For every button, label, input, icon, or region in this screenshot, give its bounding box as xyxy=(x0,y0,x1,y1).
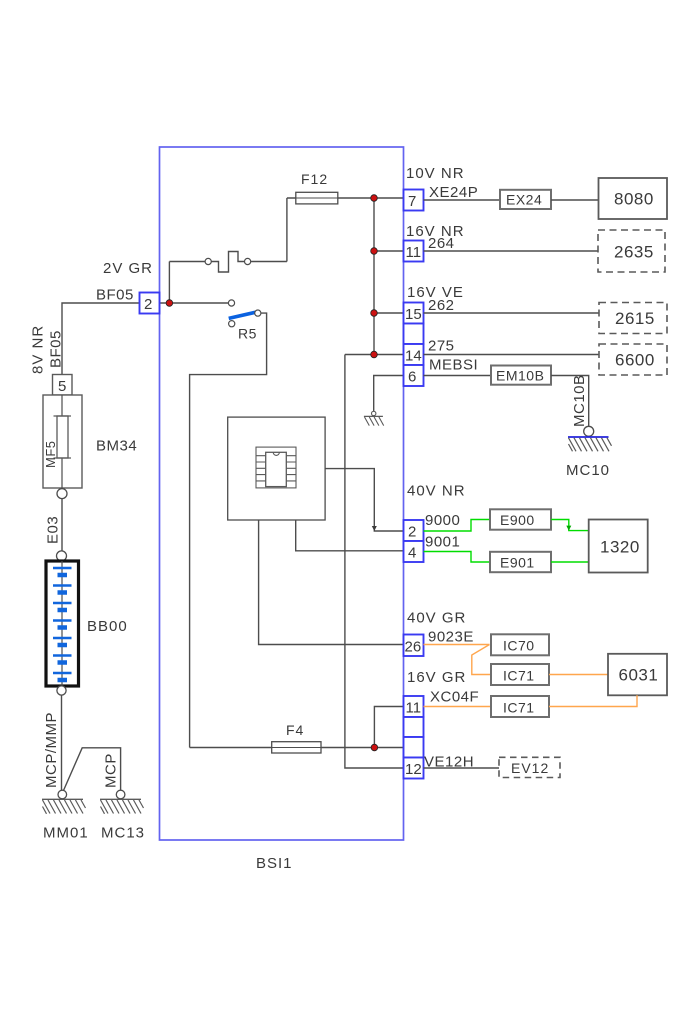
wire IC71b to 6031 orange xyxy=(549,695,637,706)
ground MM01 xyxy=(42,790,89,841)
svg-text:IC71: IC71 xyxy=(503,700,535,716)
splice EX24 xyxy=(500,190,551,209)
splice E901 xyxy=(490,552,551,572)
wire chip to pin 26 xyxy=(259,520,404,645)
arrow tick pin2 wire xyxy=(372,526,377,531)
wire pin 14 to 6600 xyxy=(424,354,600,356)
svg-text:8V NR: 8V NR xyxy=(30,325,47,374)
connector pin 14 xyxy=(404,344,424,365)
wire vertical from contact to F12 xyxy=(286,198,288,262)
fuse F12 xyxy=(296,192,338,204)
svg-text:2635: 2635 xyxy=(614,243,654,262)
wire IC71 to 6031 orange xyxy=(549,674,608,676)
svg-text:14: 14 xyxy=(405,348,422,365)
wire BF05 to battery column xyxy=(62,303,140,375)
svg-text:275: 275 xyxy=(428,338,455,355)
svg-text:5: 5 xyxy=(58,378,66,395)
wire pin 11b down to F4 row xyxy=(374,707,403,748)
component 1320 xyxy=(589,520,648,573)
component 2615 dashed xyxy=(599,303,667,334)
svg-text:MCP: MCP xyxy=(103,753,120,788)
splice IC71 xyxy=(491,664,549,685)
component 2635 dashed xyxy=(598,230,665,272)
svg-text:EM10B: EM10B xyxy=(496,368,544,384)
connector pin 2 BF05 xyxy=(140,293,160,314)
svg-text:2615: 2615 xyxy=(615,309,655,328)
wire pin 2 to E900 green xyxy=(424,520,491,532)
wire pin 6 to EM10B xyxy=(424,375,492,377)
junction dot xyxy=(371,248,378,255)
junction dot xyxy=(371,195,378,202)
splice E900 xyxy=(490,509,551,529)
svg-text:MC13: MC13 xyxy=(101,825,145,842)
wire chip to pin 2 xyxy=(325,469,403,531)
microcontroller block outline xyxy=(228,417,325,520)
terminal circle BM34 bottom xyxy=(57,489,67,499)
junction dot node pin2 xyxy=(166,300,173,307)
svg-text:264: 264 xyxy=(428,235,455,252)
svg-text:2V GR: 2V GR xyxy=(103,260,153,277)
svg-text:26: 26 xyxy=(405,639,422,656)
svg-text:EX24: EX24 xyxy=(506,192,542,208)
connector pin blank xyxy=(404,324,424,345)
svg-text:9023E: 9023E xyxy=(428,629,474,646)
svg-text:2: 2 xyxy=(144,296,152,313)
BSI1 control unit box xyxy=(160,147,404,840)
wire pin 11 feed xyxy=(374,250,404,252)
wire pin 2 BF05 row xyxy=(160,302,229,304)
wire pin 6 to internal ground xyxy=(374,376,404,412)
svg-text:6031: 6031 xyxy=(619,666,659,685)
svg-text:BB00: BB00 xyxy=(87,618,128,635)
wire E900 to 1320 green xyxy=(551,520,589,531)
svg-text:4: 4 xyxy=(408,545,416,562)
splice IC70 xyxy=(491,634,549,655)
svg-text:40V GR: 40V GR xyxy=(407,610,466,627)
svg-text:MEBSI: MEBSI xyxy=(429,357,478,374)
svg-text:6600: 6600 xyxy=(615,351,655,370)
ground MC10 xyxy=(566,426,612,479)
svg-text:6: 6 xyxy=(408,369,416,386)
wire branch to MC13 xyxy=(64,748,121,791)
connector pin 6 xyxy=(404,365,424,386)
component 6031 xyxy=(608,654,667,696)
svg-text:40V NR: 40V NR xyxy=(407,483,466,500)
connector pin 7 xyxy=(404,190,424,211)
svg-text:EV12: EV12 xyxy=(511,760,549,776)
svg-text:BM34: BM34 xyxy=(96,438,137,455)
wire pin 4 to E901 green xyxy=(424,552,491,563)
svg-text:11: 11 xyxy=(406,700,422,717)
terminal circle battery bottom xyxy=(57,686,66,695)
junction dot F4 row xyxy=(371,744,378,751)
connector pin blank xyxy=(404,737,424,758)
battery BB00 xyxy=(46,561,128,686)
arrow tick xyxy=(566,526,571,531)
svg-text:BF05: BF05 xyxy=(48,330,65,368)
connector pin 26 xyxy=(404,635,424,657)
wire EM10B to ground MC10 xyxy=(551,376,589,427)
wire long vertical to pin 12 xyxy=(345,355,404,769)
wire pin 7 to EX24 xyxy=(424,199,501,201)
svg-text:12: 12 xyxy=(405,761,422,778)
svg-text:BSI1: BSI1 xyxy=(256,855,293,872)
junction dot xyxy=(371,351,378,358)
svg-text:IC70: IC70 xyxy=(503,638,535,654)
wire branch to IC71 orange xyxy=(472,645,491,675)
wire F12 to pin 7 xyxy=(287,197,404,199)
svg-text:10V NR: 10V NR xyxy=(406,165,465,182)
svg-text:BF05: BF05 xyxy=(96,287,134,304)
svg-text:E03: E03 xyxy=(45,516,62,544)
relay R5 xyxy=(228,300,261,342)
wire chip to pin 4 xyxy=(296,520,404,551)
svg-text:9000: 9000 xyxy=(425,512,460,529)
IC chip symbol U1 xyxy=(256,447,296,488)
svg-text:1320: 1320 xyxy=(600,538,640,557)
svg-text:MC10: MC10 xyxy=(566,462,610,479)
wire pin 26 to IC70 orange xyxy=(424,644,490,646)
component 8080 xyxy=(599,178,668,219)
svg-text:9001: 9001 xyxy=(425,534,460,551)
connector pin 4 xyxy=(404,541,424,562)
wire E901 to 1320 green xyxy=(551,561,589,563)
connector pin 2 xyxy=(404,520,424,541)
svg-text:E901: E901 xyxy=(500,555,535,571)
wire pin 15 to 2615 xyxy=(424,312,600,314)
splice IC71 b xyxy=(491,696,549,717)
wire EX24 to 8080 xyxy=(551,199,599,201)
internal ground xyxy=(364,411,384,425)
svg-text:MC10B: MC10B xyxy=(571,374,588,427)
connector pin 12 xyxy=(404,758,424,779)
svg-text:MCP/MMP: MCP/MMP xyxy=(43,712,60,788)
svg-text:F12: F12 xyxy=(301,171,328,187)
wire R5 output down-left-down to F4 xyxy=(190,313,267,747)
wire E03 xyxy=(61,499,63,551)
ground MC13 xyxy=(100,790,145,841)
component EV12 dashed xyxy=(499,757,560,777)
splice EM10B xyxy=(491,366,551,385)
svg-text:XC04F: XC04F xyxy=(430,689,479,706)
wire junction column xyxy=(373,198,375,355)
svg-text:R5: R5 xyxy=(238,326,257,342)
connector pin 5 xyxy=(53,375,73,396)
connector pin 11 XC04F xyxy=(404,696,424,717)
svg-text:11: 11 xyxy=(406,244,422,261)
svg-text:16V GR: 16V GR xyxy=(407,669,466,686)
svg-text:XE24P: XE24P xyxy=(429,184,478,201)
wire contact to node xyxy=(168,262,170,304)
wire pin 15 feed xyxy=(374,312,404,314)
fuse holder BM34 xyxy=(43,395,137,488)
svg-text:E900: E900 xyxy=(500,512,535,528)
wire MCP/MMP xyxy=(61,695,63,790)
connector pin 15 xyxy=(404,303,424,324)
connector pin 11 xyxy=(404,241,424,262)
svg-text:MM01: MM01 xyxy=(43,825,89,842)
wire pin 11b to IC71 orange xyxy=(424,706,492,708)
wire pin 12 to EV12 xyxy=(424,767,500,769)
svg-text:F4: F4 xyxy=(286,722,304,738)
terminal circle battery top xyxy=(57,551,67,561)
svg-text:2: 2 xyxy=(408,524,416,541)
svg-text:262: 262 xyxy=(428,297,455,314)
fuse F4 xyxy=(190,747,404,749)
svg-text:7: 7 xyxy=(408,193,416,210)
component 6600 dashed xyxy=(599,344,667,375)
svg-text:IC71: IC71 xyxy=(503,668,535,684)
wire pin 14 feed xyxy=(345,354,404,356)
wire pin 11 to 2635 xyxy=(424,250,599,252)
connector pin blank xyxy=(404,717,424,737)
junction dot xyxy=(371,310,378,317)
svg-text:MF5: MF5 xyxy=(43,441,58,469)
svg-text:8080: 8080 xyxy=(614,190,654,209)
contact switch (ignition feed) xyxy=(169,252,287,273)
svg-text:15: 15 xyxy=(405,306,422,323)
